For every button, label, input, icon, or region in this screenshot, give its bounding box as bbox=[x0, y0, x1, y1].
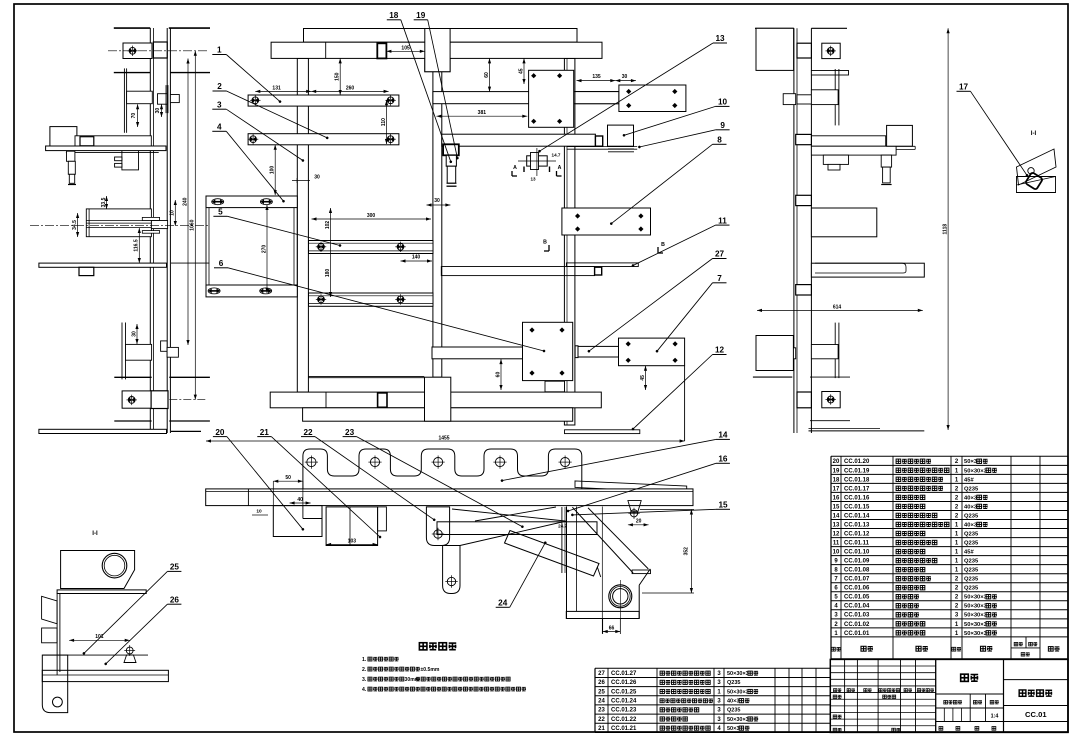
svg-text:30: 30 bbox=[314, 175, 320, 181]
svg-text:30: 30 bbox=[131, 331, 137, 337]
svg-text:40×3: 40×3 bbox=[964, 504, 978, 510]
left view dim 34.5 bbox=[77, 213, 79, 237]
tech requirements title bbox=[419, 643, 427, 650]
main view bottom bar gap box bbox=[378, 393, 387, 407]
svg-text:45#: 45# bbox=[964, 550, 974, 556]
vertical bracket part22 upper bbox=[426, 507, 449, 546]
svg-text:116.5: 116.5 bbox=[134, 239, 140, 251]
right view top lines bbox=[755, 27, 794, 29]
svg-text:22: 22 bbox=[598, 717, 605, 723]
svg-text:Q235: Q235 bbox=[964, 513, 979, 519]
main view mid bar with cap bbox=[441, 267, 594, 276]
svg-text:19: 19 bbox=[833, 468, 840, 474]
title block bbox=[830, 659, 1068, 732]
svg-text:6: 6 bbox=[219, 259, 224, 268]
svg-text:10: 10 bbox=[833, 550, 840, 556]
svg-text:B: B bbox=[543, 240, 547, 246]
svg-text:110: 110 bbox=[381, 118, 387, 126]
svg-text:3: 3 bbox=[217, 100, 222, 109]
svg-text:20: 20 bbox=[636, 519, 642, 525]
main view left channel top plate bbox=[206, 196, 297, 208]
svg-text:CC.01.11: CC.01.11 bbox=[844, 541, 870, 547]
svg-text:50×30×3: 50×30×3 bbox=[964, 604, 988, 610]
left view bottom bolt plate bbox=[122, 391, 151, 408]
main view bottom second bar bbox=[303, 408, 573, 421]
main view dim 105 bbox=[386, 50, 424, 52]
right view bottom left rect bbox=[756, 336, 793, 371]
main view upper crossbar bbox=[433, 92, 619, 104]
right view bottom spacer bbox=[797, 392, 811, 408]
main view plate row 2 bbox=[248, 134, 399, 145]
left view top edge lines bbox=[114, 27, 150, 29]
main view left column bbox=[297, 58, 308, 392]
right view top flange bbox=[811, 71, 848, 76]
vertical bracket part22 lower bbox=[443, 546, 460, 594]
svg-text:11: 11 bbox=[833, 541, 840, 547]
detail 17 hole bbox=[1028, 168, 1034, 174]
right gusset hole tube bbox=[609, 585, 632, 608]
BOM parts list table bbox=[831, 455, 1068, 457]
left view dim 116.5 bbox=[138, 228, 140, 263]
main view dim 60 bbox=[489, 58, 491, 91]
svg-text:16: 16 bbox=[833, 495, 840, 501]
svg-text:CC.01.16: CC.01.16 bbox=[844, 495, 870, 501]
svg-text:50×3: 50×3 bbox=[727, 726, 739, 732]
right gusset diagonal plate bbox=[572, 507, 633, 573]
svg-text:614: 614 bbox=[833, 304, 842, 310]
svg-text:260: 260 bbox=[346, 86, 355, 92]
detail II fin 2 bbox=[42, 628, 58, 643]
detail II weld mark bbox=[126, 647, 133, 654]
svg-text:34.5: 34.5 bbox=[72, 220, 78, 230]
left view upper clamp bbox=[158, 94, 168, 105]
svg-text:7: 7 bbox=[717, 274, 722, 283]
dim 352 bbox=[690, 510, 692, 594]
horizontal bar part23 bbox=[437, 522, 597, 535]
main view dim 140 bbox=[401, 260, 433, 262]
svg-text:102: 102 bbox=[325, 221, 331, 230]
left view motor block bbox=[122, 147, 139, 170]
main view plate row 1 bbox=[248, 95, 399, 106]
right gusset left edge bbox=[566, 507, 568, 619]
main view top bar gap box bbox=[377, 43, 386, 58]
main view strip A bbox=[309, 241, 434, 254]
right view thin strip upper bbox=[834, 69, 836, 125]
main view plate8 bbox=[562, 208, 651, 235]
svg-text:18: 18 bbox=[389, 11, 399, 20]
left view dim 1060 bbox=[194, 51, 196, 400]
main view dim 102 bbox=[330, 208, 332, 297]
svg-text:4.: 4. bbox=[362, 687, 367, 693]
detail II plate bbox=[57, 590, 146, 594]
svg-text:18: 18 bbox=[833, 477, 840, 483]
svg-text:50×30×3: 50×30×3 bbox=[964, 631, 988, 637]
svg-text:21: 21 bbox=[598, 726, 605, 732]
svg-text:CC.01.03: CC.01.03 bbox=[844, 613, 870, 619]
extension parts table rows 21-27 bbox=[595, 667, 830, 669]
svg-text:CC.01.27: CC.01.27 bbox=[611, 671, 637, 677]
svg-text:13: 13 bbox=[833, 522, 840, 528]
svg-text:CC.01.01: CC.01.01 bbox=[844, 631, 870, 637]
detail II fin 1 bbox=[42, 596, 58, 624]
left view bottom centerline bbox=[169, 399, 206, 401]
left view bolt под plate bbox=[67, 151, 75, 161]
left view dim 240 bbox=[187, 59, 189, 346]
svg-text:CC.01.25: CC.01.25 bbox=[611, 689, 637, 695]
detail II big hole bbox=[102, 553, 127, 578]
svg-text:15: 15 bbox=[718, 501, 728, 510]
svg-text:11: 11 bbox=[718, 216, 727, 225]
right view dim 1118 bbox=[947, 28, 949, 430]
left view top spacer square bbox=[153, 42, 167, 58]
svg-text:60: 60 bbox=[484, 72, 490, 78]
left view upper bracket arm bbox=[127, 91, 153, 104]
right view wide plate bbox=[811, 263, 924, 277]
detail II dim 101 bbox=[69, 639, 130, 641]
right view mid bar1 bbox=[811, 136, 885, 146]
svg-text:10: 10 bbox=[718, 98, 728, 107]
bracket A under rail bbox=[273, 506, 322, 537]
right view column bbox=[793, 28, 795, 433]
svg-text:B: B bbox=[661, 242, 665, 248]
svg-text:26: 26 bbox=[170, 595, 180, 604]
main view center top block overlay bbox=[425, 29, 450, 72]
left view lower flange line bbox=[114, 376, 151, 378]
svg-text:50×30×3: 50×30×3 bbox=[964, 468, 988, 474]
dim 352 ext lines bbox=[640, 509, 694, 511]
main view lines under box10 bbox=[608, 148, 634, 150]
main view connector 27 bbox=[575, 346, 619, 357]
right view bottom flange line bbox=[810, 420, 850, 422]
detail 17 slanted plate bbox=[1017, 149, 1057, 185]
svg-text:Q235: Q235 bbox=[964, 559, 979, 565]
svg-text:50×30×3: 50×30×3 bbox=[727, 689, 749, 695]
detail II mid line bbox=[42, 654, 148, 656]
bracket B under rail bbox=[326, 507, 378, 546]
svg-text:1.: 1. bbox=[362, 657, 367, 663]
svg-text:CC.01.17: CC.01.17 bbox=[844, 486, 870, 492]
svg-text:25: 25 bbox=[598, 689, 605, 695]
right gusset outline bbox=[638, 585, 640, 618]
svg-text:70: 70 bbox=[131, 113, 137, 119]
main view thin plate under bar9 bbox=[567, 146, 638, 148]
left view top flange line bbox=[114, 72, 151, 74]
svg-text:CC.01.22: CC.01.22 bbox=[611, 717, 637, 723]
main view strip B bbox=[309, 293, 434, 306]
main view bar9 bbox=[442, 134, 596, 146]
right view column square 3 bbox=[796, 285, 812, 295]
svg-text:17: 17 bbox=[833, 486, 840, 492]
svg-text:50×30×3: 50×30×3 bbox=[727, 717, 749, 723]
svg-text:4: 4 bbox=[217, 123, 222, 132]
svg-text:CC.01.09: CC.01.09 bbox=[844, 559, 870, 565]
right view mid bar2 bbox=[811, 146, 896, 155]
svg-text:8: 8 bbox=[717, 136, 722, 145]
main view bar to right plate bbox=[575, 92, 619, 104]
right gusset lower plate bbox=[566, 611, 639, 618]
right view mid box bbox=[887, 125, 913, 146]
svg-text:50×30×3: 50×30×3 bbox=[964, 613, 988, 619]
svg-text:1060: 1060 bbox=[190, 219, 196, 230]
svg-text:CC.01.15: CC.01.15 bbox=[844, 504, 870, 510]
left view centerline horizontal bbox=[30, 224, 208, 226]
main view plate6 bbox=[523, 322, 573, 380]
svg-text:40×3: 40×3 bbox=[964, 495, 978, 501]
left view lower dim 30 bbox=[136, 324, 138, 344]
svg-text:I-I: I-I bbox=[1031, 130, 1037, 137]
svg-text:40×3: 40×3 bbox=[727, 699, 739, 705]
right view bolt bbox=[881, 155, 891, 167]
svg-text:14: 14 bbox=[833, 513, 840, 519]
svg-text:131: 131 bbox=[272, 86, 281, 92]
detail II lower plate bbox=[42, 670, 168, 681]
svg-text:Q235: Q235 bbox=[964, 568, 979, 574]
wavy plate holes bbox=[307, 458, 316, 467]
main view plate7 drop line bbox=[684, 366, 686, 441]
svg-text:Q235: Q235 bbox=[727, 680, 740, 686]
main view dim 100 bbox=[274, 145, 276, 195]
svg-text:140: 140 bbox=[412, 255, 421, 261]
left view inner thin strip bbox=[165, 85, 167, 113]
svg-text:381: 381 bbox=[478, 110, 487, 116]
svg-text:2.: 2. bbox=[362, 667, 367, 673]
svg-text:5: 5 bbox=[218, 208, 223, 217]
main view bottom flange pair bbox=[308, 376, 424, 378]
svg-text:20: 20 bbox=[215, 428, 225, 437]
svg-text:40×3: 40×3 bbox=[964, 522, 978, 528]
svg-text:13: 13 bbox=[530, 177, 536, 182]
svg-text:CC.01.07: CC.01.07 bbox=[844, 577, 870, 583]
svg-text:26: 26 bbox=[598, 680, 605, 686]
svg-text:1455: 1455 bbox=[438, 435, 449, 441]
svg-text:17: 17 bbox=[959, 83, 969, 92]
svg-text:CC.01.24: CC.01.24 bbox=[611, 699, 637, 705]
svg-text:CC.01.05: CC.01.05 bbox=[844, 595, 870, 601]
left view lower clamp bbox=[161, 341, 168, 351]
left view top centerline bbox=[108, 50, 208, 52]
svg-text:CC.01.20: CC.01.20 bbox=[844, 459, 870, 465]
svg-text:135: 135 bbox=[592, 74, 601, 80]
svg-text:33.5: 33.5 bbox=[101, 197, 107, 207]
svg-text:23: 23 bbox=[345, 428, 355, 437]
svg-text:352: 352 bbox=[684, 547, 690, 556]
main view left channel sides bbox=[205, 208, 207, 285]
right view column square 1 bbox=[796, 134, 812, 144]
svg-text:2: 2 bbox=[217, 82, 222, 91]
svg-text:1:4: 1:4 bbox=[991, 714, 999, 720]
left view top bolt plate bbox=[123, 43, 152, 59]
left view motor small box bbox=[80, 137, 94, 146]
right gusset centerlines bbox=[601, 507, 603, 634]
svg-text:103: 103 bbox=[348, 538, 357, 544]
dim 66 bbox=[603, 631, 621, 633]
svg-text:45#: 45# bbox=[964, 477, 974, 483]
main view part18 head bbox=[443, 144, 459, 155]
main rail bbox=[206, 489, 693, 506]
svg-text:14.7: 14.7 bbox=[552, 153, 561, 158]
left view bottom flange line bbox=[114, 420, 151, 422]
svg-text:45: 45 bbox=[518, 68, 524, 74]
main view thin bar11 bbox=[566, 263, 638, 267]
main view bar to plate6 bbox=[432, 347, 523, 359]
main view dim 1455 bbox=[206, 440, 685, 442]
svg-text:CC.01.21: CC.01.21 bbox=[611, 726, 637, 732]
svg-text:CC.01.06: CC.01.06 bbox=[844, 586, 870, 592]
main view box part10 bbox=[608, 125, 634, 146]
svg-text:45: 45 bbox=[640, 375, 646, 381]
svg-text:10: 10 bbox=[256, 509, 262, 515]
svg-text:Q235: Q235 bbox=[964, 531, 979, 537]
left view upper bracket strip bbox=[123, 68, 125, 132]
svg-text:12: 12 bbox=[833, 531, 840, 537]
detail 17 tube bbox=[1025, 172, 1043, 190]
svg-text:24: 24 bbox=[598, 699, 605, 705]
svg-text:66: 66 bbox=[609, 625, 615, 631]
svg-text:270: 270 bbox=[261, 245, 267, 254]
main view dim 45 bbox=[523, 58, 525, 84]
svg-text:60: 60 bbox=[495, 372, 501, 378]
main view dim 45b bbox=[645, 366, 647, 390]
main view bar9 end cap bbox=[595, 136, 602, 146]
svg-text:CC.01.18: CC.01.18 bbox=[844, 477, 870, 483]
main view dim 270 bbox=[266, 205, 268, 293]
svg-text:1118: 1118 bbox=[943, 224, 949, 235]
main view plate13 upper bbox=[529, 70, 574, 127]
svg-text:15: 15 bbox=[833, 504, 840, 510]
svg-text:30: 30 bbox=[622, 74, 628, 80]
main view top main bar bbox=[271, 42, 602, 58]
main view dim 131 bbox=[255, 90, 311, 92]
svg-text:150: 150 bbox=[335, 72, 341, 81]
left view lower bracket arm bbox=[126, 344, 152, 360]
left view bottom long plate bbox=[39, 429, 167, 433]
svg-text:CC.01.12: CC.01.12 bbox=[844, 531, 870, 537]
main view dim 110 bbox=[386, 100, 388, 144]
right view mid small parts bbox=[823, 155, 848, 164]
svg-text:240: 240 bbox=[182, 197, 188, 206]
svg-text:24: 24 bbox=[498, 599, 508, 608]
right view clamp lower bbox=[783, 348, 796, 359]
svg-text:300: 300 bbox=[367, 213, 376, 219]
left view main column outer lines bbox=[149, 28, 151, 433]
svg-text:23: 23 bbox=[598, 708, 605, 714]
svg-text:14: 14 bbox=[718, 431, 728, 440]
svg-text:CC.01.04: CC.01.04 bbox=[844, 604, 870, 610]
main view dim 30a bbox=[292, 180, 310, 182]
right view top left rect bbox=[756, 28, 794, 70]
svg-text:Q235: Q235 bbox=[727, 708, 740, 714]
detail II top block bbox=[61, 551, 135, 589]
svg-text:CC.01.19: CC.01.19 bbox=[844, 468, 870, 474]
dim 40 bracketA bbox=[290, 502, 311, 504]
right view thin strip lower bbox=[834, 323, 836, 379]
slanted thin plate right bbox=[575, 481, 687, 493]
wavy mount plate part14 bbox=[303, 449, 582, 489]
svg-text:Q235: Q235 bbox=[964, 486, 979, 492]
left view dim 10 bbox=[174, 200, 176, 226]
main view dim 150 bbox=[339, 58, 341, 95]
svg-text:40: 40 bbox=[297, 497, 303, 503]
svg-text:100: 100 bbox=[270, 166, 276, 175]
main view right column bbox=[564, 58, 575, 425]
main view small AA part bbox=[527, 156, 548, 166]
svg-text:A: A bbox=[513, 165, 517, 171]
svg-text:25: 25 bbox=[170, 563, 180, 572]
svg-text:CC.01.26: CC.01.26 bbox=[611, 680, 637, 686]
svg-text:30: 30 bbox=[434, 198, 440, 204]
svg-text:16: 16 bbox=[718, 455, 728, 464]
svg-text:24.7: 24.7 bbox=[558, 524, 567, 529]
svg-text:12: 12 bbox=[715, 346, 725, 355]
right view column square 2 bbox=[796, 195, 812, 205]
svg-text:Q235: Q235 bbox=[964, 541, 979, 547]
main view right plate upper bbox=[619, 85, 686, 112]
svg-text:20: 20 bbox=[833, 459, 840, 465]
svg-text:±0.5mm: ±0.5mm bbox=[420, 667, 439, 673]
detail II left bracket bbox=[42, 655, 67, 713]
svg-text:50×30×3: 50×30×3 bbox=[964, 595, 988, 601]
right view top bolt plate bbox=[822, 43, 840, 58]
left view lower bracket strip bbox=[121, 323, 123, 380]
inclined bar part24 bbox=[505, 531, 600, 577]
left view middle long plate bbox=[39, 263, 167, 267]
svg-text:50×3: 50×3 bbox=[964, 459, 978, 465]
left view center channel bbox=[86, 209, 151, 237]
svg-text:I-I: I-I bbox=[92, 530, 98, 537]
svg-text:CC.01.10: CC.01.10 bbox=[844, 550, 870, 556]
main view center column top block bbox=[425, 29, 450, 72]
main view part18 neck bbox=[446, 155, 456, 166]
svg-text:1: 1 bbox=[217, 46, 222, 55]
weld symbol trapezoid bbox=[628, 501, 641, 512]
svg-text:50×30×3: 50×30×3 bbox=[964, 622, 988, 628]
svg-text:105: 105 bbox=[401, 46, 410, 52]
main view left channel bottom plate bbox=[206, 285, 297, 297]
left view dim 33.5 bbox=[106, 196, 108, 209]
right view lower flange line bbox=[810, 376, 850, 378]
main view dim 300 bbox=[312, 218, 432, 220]
left view channel connector bbox=[142, 217, 159, 220]
svg-text:CC.01.13: CC.01.13 bbox=[844, 522, 870, 528]
main view plate7 bbox=[619, 338, 685, 366]
svg-text:50: 50 bbox=[285, 475, 291, 481]
detail 17 base rect bbox=[1017, 177, 1056, 193]
svg-text:180: 180 bbox=[325, 269, 331, 278]
main view dim 260 bbox=[311, 90, 388, 92]
right view bottom line bbox=[809, 430, 925, 432]
svg-text:Q235: Q235 bbox=[964, 577, 979, 583]
svg-text:27: 27 bbox=[715, 250, 725, 259]
svg-text:19: 19 bbox=[416, 11, 426, 20]
main view dim 30b bbox=[615, 80, 636, 82]
dim 20 weld bbox=[628, 524, 649, 526]
svg-text:22: 22 bbox=[303, 428, 313, 437]
svg-text:10: 10 bbox=[170, 210, 176, 216]
dim 103 bracketB bbox=[326, 544, 378, 546]
main view center bottom block bbox=[425, 377, 451, 421]
detail II vertical lines bbox=[56, 594, 58, 676]
svg-text:CC.01.23: CC.01.23 bbox=[611, 708, 637, 714]
svg-text:30: 30 bbox=[155, 108, 161, 114]
svg-text:50×30×3: 50×30×3 bbox=[727, 671, 749, 677]
left view plate notch box bbox=[79, 267, 94, 275]
right view top spacer bbox=[797, 43, 811, 58]
main view center column bbox=[433, 72, 442, 378]
left view bottom spacer square bbox=[151, 391, 168, 409]
left view upper small dim 70 bbox=[137, 104, 139, 127]
left view motor box bbox=[50, 127, 77, 147]
svg-text:9: 9 bbox=[720, 121, 725, 130]
